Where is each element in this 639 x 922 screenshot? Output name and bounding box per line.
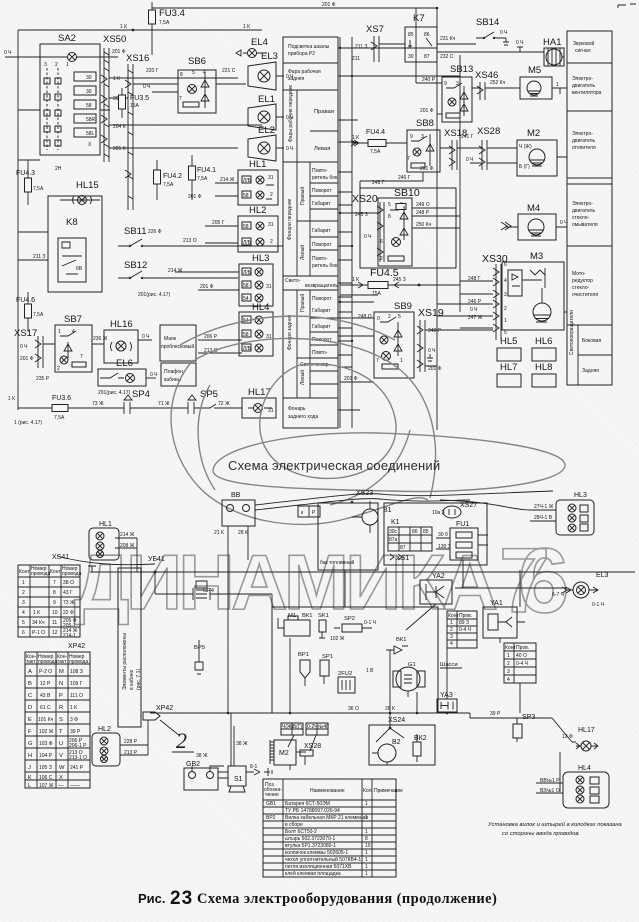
svg-text:86: 86: [424, 32, 430, 38]
svg-text:2: 2: [270, 192, 273, 198]
svg-text:201 Ф: 201 Ф: [344, 376, 358, 382]
svg-text:Наименование: Наименование: [310, 788, 345, 794]
svg-text:0-2Ч: 0-2Ч: [307, 724, 318, 730]
svg-text:232 С: 232 С: [440, 54, 454, 60]
svg-text:сигнал: сигнал: [575, 48, 591, 54]
svg-text:ВВ: ВВ: [231, 492, 241, 499]
lamp block HL4: [239, 312, 273, 356]
svg-text:Фонари передние: Фонари передние: [287, 199, 293, 240]
svg-text:105 З: 105 З: [39, 765, 52, 771]
svg-text:FU3.6: FU3.6: [52, 395, 71, 402]
svg-text:211: 211: [352, 56, 360, 62]
svg-text:211 З: 211 З: [355, 44, 367, 50]
svg-text:стекло-: стекло-: [572, 285, 590, 291]
svg-text:28 К: 28 К: [238, 530, 248, 536]
svg-text:М2: М2: [279, 750, 289, 757]
svg-text:214 Ж: 214 Ж: [120, 532, 135, 538]
svg-text:89 З: 89 З: [459, 620, 469, 626]
svg-text:0 Ч: 0 Ч: [470, 307, 478, 313]
svg-text:HL2: HL2: [98, 726, 111, 733]
svg-text:9: 9: [444, 81, 447, 87]
svg-text:Левый: Левый: [299, 245, 306, 260]
svg-text:30 б: 30 б: [438, 532, 448, 538]
svg-text:G: G: [28, 741, 33, 747]
svg-text:22 Ф: 22 Ф: [63, 610, 74, 616]
svg-text:6: 6: [504, 262, 507, 268]
svg-text:прибора Р2: прибора Р2: [288, 51, 315, 57]
svg-text:УБ41: УБ41: [148, 556, 165, 563]
svg-text:SP5: SP5: [200, 389, 218, 400]
svg-text:Маяк: Маяк: [164, 336, 177, 342]
svg-text:101 Кч: 101 Кч: [38, 717, 54, 723]
svg-text:клей клеевая площадка: клей клеевая площадка: [285, 870, 341, 877]
svg-text:39 Р: 39 Р: [70, 729, 81, 735]
button SB6: [178, 70, 216, 113]
svg-text:Поворот: Поворот: [312, 242, 332, 248]
load table strip: [283, 37, 338, 428]
svg-text:7,5А: 7,5А: [163, 182, 174, 188]
svg-text:XS41: XS41: [52, 554, 69, 561]
svg-text:K8: K8: [66, 217, 78, 228]
box beacon: [160, 325, 196, 361]
svg-text:HL5: HL5: [500, 336, 517, 347]
svg-text:Ч (Ж): Ч (Ж): [519, 144, 532, 150]
svg-text:ХР42: ХР42: [156, 705, 173, 712]
button SB10: [360, 188, 456, 268]
svg-text:10: 10: [52, 610, 58, 616]
wire top bus 201F: [152, 7, 437, 9]
svg-text:Примечание: Примечание: [374, 788, 403, 794]
svg-text:206-1 Р: 206-1 Р: [69, 743, 87, 749]
svg-text:EL6: EL6: [116, 358, 133, 369]
svg-text:241 Г: 241 Г: [461, 134, 474, 140]
svg-text:0 Ч: 0 Ч: [150, 372, 158, 378]
svg-text:заднего хода: заднего хода: [288, 414, 318, 420]
svg-text:3 Ф: 3 Ф: [70, 717, 78, 723]
svg-text:—: —: [58, 783, 64, 789]
svg-text:Плафон: Плафон: [164, 369, 183, 375]
svg-text:задняя: задняя: [288, 76, 304, 82]
svg-text:226 Ф: 226 Ф: [148, 229, 162, 235]
svg-text:Задняя: Задняя: [582, 368, 599, 374]
svg-text:очистителя: очистителя: [572, 292, 598, 298]
svg-text:XS23: XS23: [356, 490, 373, 497]
svg-text:54: 54: [243, 296, 249, 302]
svg-text:В2: В2: [392, 739, 401, 746]
svg-text:EL4: EL4: [251, 37, 268, 48]
lamp HL16: [104, 330, 138, 363]
svg-text:XS27: XS27: [460, 502, 477, 509]
svg-text:ХS24: ХS24: [388, 717, 405, 724]
svg-text:2: 2: [57, 366, 60, 372]
svg-text:W: W: [59, 765, 65, 771]
svg-text:V: V: [59, 753, 63, 759]
motor M2: [517, 140, 557, 176]
svg-text:FU1: FU1: [456, 521, 469, 528]
svg-text:7: 7: [407, 156, 410, 162]
svg-text:235 Р: 235 Р: [36, 376, 50, 382]
svg-text:(рис. 7.1): (рис. 7.1): [136, 669, 142, 690]
button SB8: [407, 130, 440, 172]
svg-text:Фары рабочие передние: Фары рабочие передние: [288, 85, 294, 142]
svg-text:2: 2: [380, 256, 383, 262]
svg-text:86: 86: [412, 529, 418, 535]
svg-text:3: 3: [22, 600, 25, 606]
svg-text:58: 58: [243, 283, 249, 289]
svg-text:231 Кч: 231 Кч: [440, 36, 456, 42]
svg-text:M4: M4: [527, 203, 540, 214]
svg-text:двигатель: двигатель: [572, 208, 596, 214]
svg-text:EL2: EL2: [258, 125, 275, 136]
fuel sensor symbol: [196, 581, 207, 588]
svg-text:U: U: [59, 741, 63, 747]
svg-text:SA2: SA2: [58, 33, 76, 44]
fuse FU4.1: [191, 155, 193, 200]
svg-text:0-4 Ч: 0-4 Ч: [516, 661, 528, 667]
svg-text:58: 58: [86, 103, 92, 109]
svg-text:30с: 30с: [389, 529, 398, 535]
wire 1K bus: [18, 29, 262, 31]
svg-text:7: 7: [53, 580, 56, 586]
svg-text:1 (рис. 4.17): 1 (рис. 4.17): [14, 420, 42, 426]
svg-text:ритель бок.: ритель бок.: [312, 263, 339, 269]
svg-text:Элементы расположены: Элементы расположены: [122, 633, 128, 690]
svg-text:Повто-: Повто-: [312, 168, 328, 174]
svg-text:в сборе: в сборе: [285, 822, 303, 828]
svg-text:2: 2: [507, 661, 510, 667]
svg-text:7,5А: 7,5А: [54, 415, 65, 421]
svg-text:58L: 58L: [86, 131, 95, 137]
wire left vertical: [5, 30, 40, 410]
svg-text:28Ч-1 В: 28Ч-1 В: [534, 515, 553, 521]
svg-text:отопителя: отопителя: [572, 145, 596, 151]
svg-text:6В: 6В: [76, 266, 83, 272]
svg-text:SP4: SP4: [132, 389, 150, 400]
svg-text:Р-1 О: Р-1 О: [32, 630, 45, 636]
svg-text:Фонари задние: Фонари задние: [287, 314, 293, 350]
svg-text:Л/Б: Л/Б: [243, 346, 252, 352]
svg-text:GB1: GB1: [266, 801, 276, 807]
svg-text:провода: провода: [31, 571, 50, 577]
svg-text:провода: провода: [38, 659, 57, 665]
svg-text:1: 1: [504, 318, 507, 324]
svg-text:ВР5: ВР5: [194, 645, 205, 651]
svg-text:такт: такт: [57, 659, 67, 665]
svg-text:248 Р: 248 Р: [428, 328, 442, 334]
svg-text:Болт 6СТ50-2: Болт 6СТ50-2: [285, 829, 317, 835]
svg-text:Л/Б: Л/Б: [243, 178, 252, 184]
svg-text:1 К: 1 К: [8, 396, 15, 402]
svg-text:Мото-: Мото-: [572, 271, 586, 277]
svg-text:S: S: [59, 717, 63, 723]
svg-text:Правый: Правый: [299, 187, 306, 205]
wire: [18, 57, 118, 160]
wire: [228, 526, 248, 713]
svg-text:58: 58: [243, 193, 249, 199]
svg-text:201 Ф: 201 Ф: [420, 108, 434, 114]
svg-text:F: F: [28, 729, 32, 735]
svg-text:34 Кч: 34 Кч: [32, 620, 45, 626]
svg-text:Звуковой: Звуковой: [573, 40, 594, 47]
svg-text:103 Ф: 103 Ф: [39, 741, 53, 747]
svg-text:XS20: XS20: [352, 193, 378, 205]
svg-text:J: J: [28, 765, 31, 771]
svg-text:201(рис. 4.17): 201(рис. 4.17): [98, 390, 131, 396]
svg-text:ВК2: ВК2: [414, 735, 427, 742]
pin table T1: [447, 611, 477, 648]
svg-text:201 Ф: 201 Ф: [200, 284, 214, 290]
svg-text:1: 1: [365, 871, 368, 877]
svg-text:HL16: HL16: [110, 319, 133, 330]
svg-text:2: 2: [176, 728, 187, 753]
connector box KR: [298, 506, 320, 517]
svg-text:5: 5: [388, 202, 391, 208]
svg-text:38 Ж: 38 Ж: [196, 753, 208, 759]
wire: [109, 78, 262, 148]
svg-text:Подсветка шкалы: Подсветка шкалы: [288, 44, 330, 50]
svg-text:2: 2: [55, 62, 58, 68]
svg-text:SB9: SB9: [394, 301, 412, 312]
svg-text:EL3: EL3: [261, 51, 278, 62]
svg-text:214 Ж: 214 Ж: [168, 268, 183, 274]
svg-text:31: 31: [268, 408, 274, 414]
svg-text:15А: 15А: [130, 103, 140, 109]
svg-text:Габарит: Габарит: [312, 228, 331, 234]
svg-text:ритель бок.: ритель бок.: [312, 175, 339, 181]
svg-text:Рис.: Рис.: [138, 891, 166, 906]
svg-text:58: 58: [243, 224, 249, 230]
svg-text:8: 8: [388, 214, 391, 220]
svg-text:SK1: SK1: [318, 613, 329, 619]
svg-text:12 Р: 12 Р: [40, 681, 51, 687]
svg-text:Правая: Правая: [314, 109, 334, 115]
svg-text:248 Р: 248 Р: [416, 210, 430, 216]
svg-text:SB7: SB7: [64, 314, 82, 325]
svg-text:27Ч-1 Ж: 27Ч-1 Ж: [534, 504, 554, 510]
svg-text:Фонарь: Фонарь: [288, 406, 306, 412]
svg-text:0 Ч: 0 Ч: [466, 157, 474, 163]
svg-text:XS28: XS28: [477, 126, 500, 137]
svg-text:0 Ч: 0 Ч: [500, 30, 508, 36]
svg-text:2: 2: [22, 590, 25, 596]
svg-text:ВК1: ВК1: [302, 613, 312, 619]
svg-text:омывателя: омывателя: [572, 222, 598, 228]
svg-text:1: 1: [365, 857, 368, 863]
svg-text:XS50: XS50: [103, 34, 126, 45]
svg-text:штырь 502.3723070-1: штырь 502.3723070-1: [285, 836, 336, 842]
svg-text:проблесковый: проблесковый: [161, 343, 194, 350]
svg-text:Поворот: Поворот: [312, 296, 332, 302]
svg-text:Повто-: Повто-: [312, 256, 328, 262]
svg-text:Электро-: Электро-: [572, 131, 593, 137]
svg-text:109 Г: 109 Г: [70, 681, 83, 687]
svg-text:1 К: 1 К: [352, 135, 359, 141]
svg-text:73 Ж: 73 Ж: [63, 600, 75, 606]
svg-text:Конт: Конт: [448, 613, 459, 619]
button SB7: [55, 325, 92, 372]
svg-text:HL1: HL1: [99, 521, 112, 528]
svg-text:FU4.3: FU4.3: [16, 170, 35, 177]
svg-text:X: X: [59, 775, 63, 781]
svg-text:Габарит: Габарит: [312, 201, 331, 207]
svg-text:3: 3: [450, 634, 453, 640]
motor M2b: [274, 740, 296, 765]
svg-text:252 Кч: 252 Кч: [490, 80, 506, 86]
svg-text:205 Г: 205 Г: [212, 220, 225, 226]
svg-text:HL8: HL8: [535, 362, 552, 373]
svg-text:редуктор: редуктор: [572, 278, 593, 284]
svg-text:Схема электрическая соединений: Схема электрическая соединений: [228, 458, 440, 473]
svg-text:N: N: [59, 681, 63, 687]
svg-text:FU4.6: FU4.6: [16, 297, 35, 304]
svg-text:ВР1: ВР1: [298, 652, 309, 658]
svg-text:Конт: Конт: [19, 569, 30, 575]
lamp block HL1: [238, 170, 278, 205]
relay K7: [405, 27, 437, 62]
svg-text:М: М: [59, 669, 64, 675]
svg-text:Конт: Конт: [505, 645, 516, 651]
svg-text:Установка вилок и штырей в кол: Установка вилок и штырей в колодках пока…: [487, 821, 623, 828]
svg-text:205 К: 205 К: [113, 146, 126, 152]
corner mark: [618, 4, 636, 8]
svg-text:6: 6: [380, 239, 383, 245]
svg-text:85: 85: [408, 32, 414, 38]
svg-text:228 Р: 228 Р: [124, 739, 138, 745]
svg-text:221 С: 221 С: [222, 68, 236, 74]
wire trunk3: [150, 713, 512, 718]
svg-text:1: 1: [556, 82, 559, 88]
motor M4: [518, 214, 556, 240]
svg-text:36 О: 36 О: [348, 706, 359, 712]
svg-text:7,5А: 7,5А: [159, 20, 170, 26]
svg-text:38 О: 38 О: [63, 580, 74, 586]
svg-text:SB11: SB11: [124, 226, 147, 237]
wire trunk2: [155, 572, 272, 607]
svg-text:106 С: 106 С: [39, 775, 53, 781]
svg-text:87: 87: [400, 545, 406, 551]
svg-text:M5: M5: [528, 65, 541, 76]
svg-text:Габарит: Габарит: [312, 308, 331, 314]
button SB13: [442, 77, 472, 122]
svg-text:Б (Г): Б (Г): [519, 164, 530, 170]
svg-text:SB13: SB13: [450, 64, 473, 75]
svg-text:107 Ж: 107 Ж: [39, 783, 54, 789]
svg-text:201 Ф: 201 Ф: [20, 356, 34, 362]
lamp HL17: [242, 398, 276, 418]
svg-text:Светововращатели: Светововращатели: [569, 310, 575, 355]
svg-text:72 Ж: 72 Ж: [218, 401, 230, 407]
svg-text:220 Г: 220 Г: [146, 68, 159, 74]
svg-text:ВК1: ВК1: [396, 637, 406, 643]
svg-text:двигатель: двигатель: [572, 83, 596, 89]
svg-text:M2: M2: [527, 128, 540, 139]
svg-text:Поворот: Поворот: [312, 188, 332, 194]
svg-text:0-1 Ч: 0-1 Ч: [364, 620, 376, 626]
svg-text:SB8: SB8: [416, 118, 434, 129]
svg-text:EL1: EL1: [258, 94, 275, 105]
motor M3: [502, 262, 564, 330]
svg-text:7,5А: 7,5А: [33, 312, 44, 318]
button SB9: [374, 312, 414, 378]
svg-text:0: 0: [377, 316, 380, 322]
svg-text:240 Р: 240 Р: [422, 77, 436, 83]
svg-text:HL4: HL4: [578, 765, 591, 772]
svg-text:D: D: [28, 705, 32, 711]
svg-text:ТУ РБ 14788097.026-94: ТУ РБ 14788097.026-94: [285, 808, 340, 814]
svg-text:3: 3: [507, 669, 510, 675]
svg-text:двигатель: двигатель: [572, 138, 596, 144]
svg-text:31: 31: [266, 284, 272, 290]
svg-text:6: 6: [22, 630, 25, 636]
svg-text:3: 3: [44, 62, 47, 68]
svg-text:201 Ф: 201 Ф: [420, 166, 434, 172]
svg-text:1: 1: [58, 329, 61, 335]
wire risers: [290, 560, 520, 770]
svg-text:248 О: 248 О: [358, 314, 372, 320]
lamp block HL3: [239, 264, 273, 306]
wire bus verticals: [340, 8, 460, 430]
svg-text:31: 31: [268, 222, 274, 228]
fuse FU4.6: [27, 292, 29, 332]
svg-text:ХР42: ХР42: [68, 643, 85, 650]
svg-text:7,5А: 7,5А: [33, 186, 44, 192]
box fuel unit: [369, 725, 435, 765]
svg-text:Т: Т: [59, 729, 63, 735]
svg-text:4: 4: [22, 610, 25, 616]
svg-text:0-1 Ч: 0-1 Ч: [592, 602, 604, 608]
fuse FU3.5: [121, 88, 123, 118]
consumer table right column: [567, 31, 612, 385]
svg-text:А: А: [28, 669, 32, 675]
svg-text:214-1: 214-1: [63, 633, 76, 639]
relay box K8: [48, 196, 102, 292]
svg-text:0 Ч: 0 Ч: [560, 220, 568, 226]
svg-text:6-7 Ч: 6-7 Ч: [552, 592, 564, 598]
svg-text:в кабине: в кабине: [129, 669, 135, 690]
svg-text:104 Р: 104 Р: [39, 753, 53, 759]
svg-text:1 К: 1 К: [113, 76, 120, 82]
fuse FU4.3: [27, 160, 29, 205]
svg-text:SP4: SP4: [203, 588, 215, 594]
svg-text:30: 30: [86, 75, 92, 81]
svg-text:1: 1: [365, 815, 368, 821]
svg-text:12: 12: [52, 630, 58, 636]
svg-text:8: 8: [53, 590, 56, 596]
svg-text:HL1: HL1: [249, 159, 266, 170]
svg-text:0 Ч: 0 Ч: [428, 348, 436, 354]
svg-text:4: 4: [507, 677, 510, 683]
svg-text:HL3: HL3: [252, 253, 269, 264]
svg-text:Л/Б: Л/Б: [243, 270, 252, 276]
svg-text:ДИНАМИКА: ДИНАМИКА: [74, 538, 498, 626]
svg-text:провода: провода: [62, 571, 81, 577]
svg-text:В: В: [28, 681, 32, 687]
svg-text:214 Ж: 214 Ж: [220, 177, 235, 183]
svg-text:Левый: Левый: [299, 370, 306, 385]
svg-text:211 З: 211 З: [33, 254, 45, 260]
svg-text:1: 1: [22, 580, 25, 586]
svg-text:201 Ф: 201 Ф: [428, 366, 442, 372]
svg-text:Р: Р: [59, 693, 63, 699]
svg-text:58R: 58R: [86, 117, 96, 123]
svg-text:4: 4: [504, 278, 507, 284]
watermark swirl: [195, 338, 436, 498]
svg-text:№4Г: №4Г: [318, 724, 329, 730]
svg-text:Л/Б: Л/Б: [243, 240, 252, 246]
svg-text:S1: S1: [234, 776, 243, 783]
svg-text:9: 9: [53, 600, 56, 606]
svg-text:Пров.: Пров.: [516, 645, 529, 651]
